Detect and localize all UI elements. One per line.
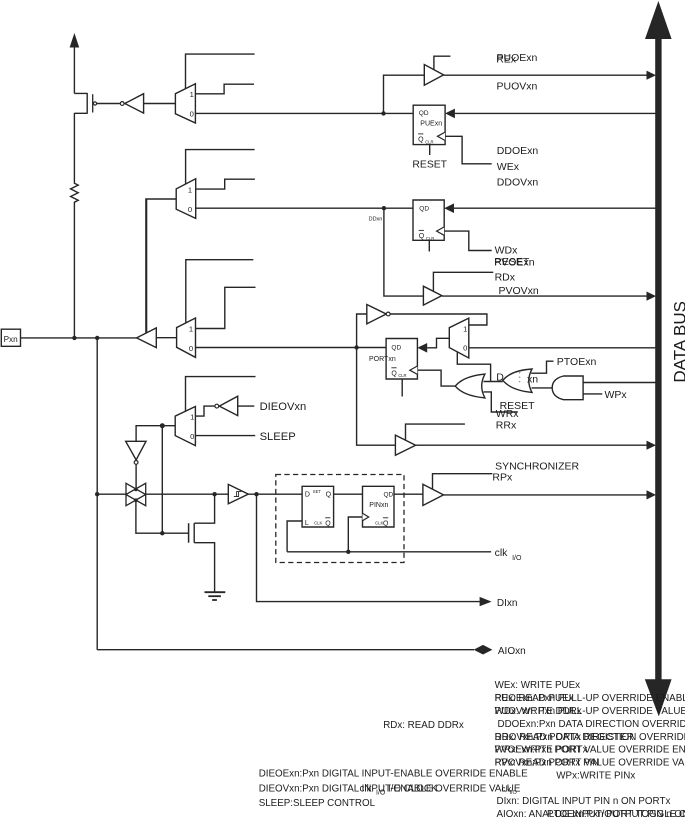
label RESET U13 bbox=[412, 160, 447, 171]
wire RDx enable stub bbox=[433, 272, 493, 291]
arrow AIOxn diamond bbox=[474, 645, 493, 655]
wire U14 clock WDx bbox=[444, 231, 492, 250]
legend RDx left bbox=[383, 720, 464, 731]
flip-flop U13 PUExn box bbox=[413, 105, 445, 144]
arrow RPx bus bbox=[647, 490, 657, 499]
label PUOVxn bbox=[497, 80, 538, 92]
mux M4 input-enable override bbox=[175, 407, 195, 446]
wire mux M2 input-0 from DDxn Q bbox=[196, 207, 413, 209]
legend DIxn bbox=[497, 796, 671, 807]
svg-text:PVOExn:Pxn PORT VALUE OVERRIDE: PVOExn:Pxn PORT VALUE OVERRIDE ENABLE bbox=[495, 745, 685, 756]
svg-text:: I/O CLOCK: : I/O CLOCK bbox=[383, 783, 438, 794]
svg-text:RDx: READ DDRx: RDx: READ DDRx bbox=[383, 720, 464, 731]
node PORT Q junction bbox=[354, 345, 358, 349]
wire O1 top input / O2 output bbox=[484, 381, 503, 383]
wire pin to T1 bbox=[97, 493, 126, 495]
svg-text:SLEEP: SLEEP bbox=[260, 431, 296, 443]
wire RDx buffer input bbox=[384, 208, 424, 296]
svg-text:DIxn: DIxn bbox=[497, 598, 518, 609]
svg-text:RPx: RPx bbox=[492, 472, 513, 484]
mux M1 pull-up override bbox=[175, 84, 195, 123]
arrow DIxn bbox=[480, 597, 492, 606]
label WEx bbox=[497, 161, 520, 173]
svg-text:CLR: CLR bbox=[398, 373, 406, 378]
synchronizer dashed box bbox=[276, 475, 404, 563]
inverter U1 (pull-up enable, bubble left) bbox=[120, 94, 143, 113]
buffer U12 REx read bbox=[424, 65, 443, 86]
transmission gate T1 (analog switch) bbox=[126, 483, 146, 505]
svg-text:0: 0 bbox=[463, 344, 467, 353]
data bus arrow down bbox=[645, 679, 672, 716]
svg-text:DDOExn: DDOExn bbox=[497, 145, 539, 157]
svg-text:1: 1 bbox=[189, 325, 193, 334]
arrow REx bus bbox=[647, 71, 657, 80]
ground GND bbox=[205, 592, 226, 600]
svg-text:xn: xn bbox=[527, 374, 538, 386]
wire T1 bottom control to gate line bbox=[136, 500, 189, 533]
wire RPx to bus bbox=[444, 494, 649, 496]
wire mux M5 output to U11 D bbox=[427, 338, 449, 348]
latch U6 box bbox=[302, 486, 334, 527]
inverter U10 toggle (bubble right) bbox=[367, 305, 390, 324]
svg-text:DIEOExn:Pxn DIGITAL INPUT-ENAB: DIEOExn:Pxn DIGITAL INPUT-ENABLE OVERRID… bbox=[259, 769, 528, 780]
wire mux M1 input-1 stub bbox=[195, 84, 254, 94]
svg-text:SET: SET bbox=[313, 489, 322, 494]
svg-text:QD: QD bbox=[419, 110, 429, 117]
label PTOExn bbox=[557, 356, 597, 368]
svg-text:Pxn: Pxn bbox=[4, 335, 19, 344]
wire mux M3 select stub bbox=[186, 260, 254, 323]
flip-flop U11 labels bbox=[369, 345, 407, 379]
node DIxn branch junction bbox=[254, 492, 258, 496]
svg-text:0: 0 bbox=[190, 432, 194, 441]
svg-text:WPx:WRITE PINx: WPx:WRITE PINx bbox=[556, 770, 635, 781]
label SLEEP bbox=[260, 431, 296, 443]
mux M1 labels 1/0 bbox=[190, 90, 194, 119]
flip-flop U11 PORTxn box bbox=[386, 339, 417, 380]
label AIOxn bbox=[498, 646, 526, 657]
wire PVOE inverter input bbox=[357, 314, 367, 348]
wire pin net horizontal bbox=[21, 337, 137, 339]
label SYNCHRONIZER bbox=[495, 460, 579, 472]
svg-text:1: 1 bbox=[463, 325, 467, 334]
label PVOVxn bbox=[499, 285, 539, 297]
inverter U4 sleep (pointing down) bbox=[126, 441, 146, 464]
wire DIxn line bbox=[257, 494, 481, 601]
wire REx enable stub bbox=[434, 56, 451, 70]
wire O2 bottom input from AND A1 bbox=[532, 387, 553, 389]
flip-flop U14 labels bbox=[419, 205, 435, 241]
svg-text:SYNCHRONIZER: SYNCHRONIZER bbox=[495, 460, 579, 472]
svg-text:WEx: WEx bbox=[497, 161, 520, 173]
flip-flop U13 labels bbox=[418, 110, 442, 144]
wire mux M3 input-0 from PORTxn Q bbox=[196, 347, 387, 349]
svg-text:PUExn: PUExn bbox=[420, 121, 442, 128]
svg-text:PTOExn: PTOExn bbox=[557, 356, 597, 368]
wire inverter U3 output stub bbox=[238, 405, 255, 407]
pin pad Pxn box bbox=[1, 329, 20, 346]
node pull-up junction bbox=[72, 336, 76, 340]
flip-flop U14 reset stub bbox=[428, 240, 430, 251]
legend WRx/PVOExn bbox=[495, 745, 685, 756]
legend REx/PUOExn bbox=[495, 693, 685, 704]
arrow U13 D input bbox=[445, 109, 455, 119]
buffer U9 RRx read port bbox=[395, 435, 415, 455]
label DDxn tiny bbox=[369, 217, 383, 223]
mux M5 port toggle bbox=[449, 318, 469, 358]
arrow U14 D input bbox=[444, 203, 454, 213]
wire AIOxn line bbox=[97, 649, 474, 651]
node clk junction bbox=[346, 550, 350, 554]
wire mux M4 select stub bbox=[186, 377, 256, 412]
wire A1 WPx stub bbox=[583, 393, 602, 395]
svg-text:CLR: CLR bbox=[426, 236, 434, 241]
wire mux M2 input-1 stub bbox=[196, 179, 255, 189]
wire RRx to bus bbox=[416, 444, 648, 446]
mux M4 labels 1/0 bbox=[190, 413, 194, 441]
wire pin vertical down bbox=[96, 338, 98, 650]
buffer pin output driver bbox=[137, 328, 157, 348]
wire U14 D from bus bbox=[454, 207, 656, 209]
svg-text:PINxn: PINxn bbox=[369, 502, 388, 509]
arrow RDx bus bbox=[647, 292, 657, 301]
flip-flop U7 labels bbox=[369, 492, 393, 528]
flip-flop U11 clock wedge bbox=[410, 366, 418, 374]
svg-text:Q: Q bbox=[391, 370, 397, 377]
svg-text:WPx: WPx bbox=[605, 389, 628, 401]
svg-text:0: 0 bbox=[189, 344, 193, 353]
node DD Q junction bbox=[382, 206, 386, 210]
wire REx to bus bbox=[444, 74, 648, 76]
label RPx bbox=[492, 472, 513, 484]
data bus arrow up bbox=[645, 1, 672, 39]
transistor Q2 clamp NMOS bbox=[189, 494, 215, 592]
node Q2 drain junction bbox=[212, 492, 216, 496]
legend clk bbox=[360, 783, 518, 796]
legend SLEEP bbox=[259, 798, 376, 809]
wire U13 clock WEx bbox=[445, 136, 492, 164]
wire U7 Q output bbox=[394, 493, 423, 495]
svg-text:L: L bbox=[305, 520, 309, 527]
svg-text:DATA BUS: DATA BUS bbox=[670, 301, 685, 383]
latch U6 labels bbox=[305, 489, 332, 528]
label D(gate overlap) bbox=[496, 372, 538, 386]
node T1 top control bbox=[134, 488, 138, 492]
svg-text:DDxn: DDxn bbox=[369, 217, 383, 223]
svg-text:PVOVxn:Pxn PORT VALUE OVERRIDE: PVOVxn:Pxn PORT VALUE OVERRIDE VALUE bbox=[495, 758, 685, 769]
label DDOExn bbox=[497, 145, 539, 157]
buffer U15 RDx read bbox=[423, 286, 441, 305]
data bus bar bbox=[655, 37, 661, 681]
svg-text:PVOExn: PVOExn bbox=[494, 256, 534, 268]
svg-text:RDx: RDx bbox=[495, 272, 516, 284]
node pin tap junction bbox=[95, 336, 99, 340]
svg-text:Q: Q bbox=[418, 137, 424, 144]
label clk bbox=[495, 547, 522, 562]
mux M5 labels 1/0 bbox=[463, 325, 467, 353]
svg-text:WEx: WRITE PUEx: WEx: WRITE PUEx bbox=[495, 680, 581, 691]
legend WDx/PUOVxn bbox=[495, 706, 685, 717]
wire RRx input bbox=[357, 348, 396, 446]
mux M3 port-value override bbox=[177, 318, 196, 357]
wire REx buffer input bbox=[384, 75, 425, 113]
svg-text:DIEOVxn: DIEOVxn bbox=[260, 401, 307, 413]
svg-text:Q: Q bbox=[325, 521, 331, 528]
svg-text:DDOVxn:Pxn DATA DIRECTION OVER: DDOVxn:Pxn DATA DIRECTION OVERRIDE VALUE bbox=[495, 732, 685, 743]
wire mux M1 input-0 from PUExn Q bbox=[195, 112, 413, 114]
wire latch U6 to PINxn bbox=[334, 493, 363, 495]
mux M2 labels 1/0 bbox=[188, 185, 192, 214]
inverter U3 DIEOV (bubble left) bbox=[215, 396, 238, 415]
svg-text:DDOExn:Pxn DATA DIRECTION OVER: DDOExn:Pxn DATA DIRECTION OVERRIDE ENABL… bbox=[498, 719, 685, 730]
flip-flop U14 clock wedge bbox=[437, 227, 445, 235]
svg-text:PORTxn: PORTxn bbox=[369, 356, 396, 363]
svg-text:Q: Q bbox=[326, 492, 332, 499]
svg-text:CLK: CLK bbox=[314, 520, 322, 525]
flip-flop U7 clock wedge bbox=[363, 513, 369, 521]
wire mux M5 input-0 from bus bbox=[469, 347, 656, 349]
label WDx bbox=[495, 244, 518, 256]
svg-text:WRx: WRx bbox=[496, 408, 519, 420]
wire inverter U1 input from mux M1 output bbox=[144, 103, 176, 105]
svg-text:PTOExn:Pxn PORT TOGGLE OVERRID: PTOExn:Pxn PORT TOGGLE OVERRIDE ENABLE bbox=[547, 809, 685, 820]
svg-text:QD: QD bbox=[419, 205, 429, 212]
wire mux M5 select bbox=[457, 352, 490, 381]
svg-text:PUOVxn: Pxn PULL-UP OVERRIDE V: PUOVxn: Pxn PULL-UP OVERRIDE VALUE bbox=[495, 706, 685, 717]
svg-text:REx: REx bbox=[496, 54, 517, 66]
wire mux M1 select stub bbox=[186, 54, 255, 89]
wire driver enable vertical bbox=[146, 199, 148, 333]
wire mux M2 output to driver enable bbox=[146, 199, 176, 333]
resistor R1 pull-up bbox=[71, 181, 79, 338]
wire U10 output to mux M5 in1 bbox=[390, 314, 487, 325]
label RDx bbox=[495, 272, 516, 284]
or gate O1 (points left) bbox=[455, 374, 485, 398]
svg-text:clk: clk bbox=[360, 783, 372, 794]
or gate O2 (points left) bbox=[503, 369, 532, 392]
svg-text:1: 1 bbox=[190, 413, 194, 422]
svg-text:D: D bbox=[496, 372, 504, 384]
svg-text:clk: clk bbox=[495, 547, 509, 559]
svg-text:AIOxn: AIOxn bbox=[498, 646, 526, 657]
wire PMOS gate to inverter bbox=[97, 103, 121, 105]
svg-text:DIxn: DIGITAL INPUT PIN n ON P: DIxn: DIGITAL INPUT PIN n ON PORTx bbox=[497, 796, 671, 807]
legend RRx/DDOVxn bbox=[495, 732, 685, 743]
wire PTOExn stub bbox=[531, 361, 553, 373]
label RESET overlap PVOExn bbox=[494, 256, 534, 268]
flip-flop U13 reset stub bbox=[429, 145, 431, 155]
label DDOVxn bbox=[497, 176, 539, 188]
legend AIOxn/PTOExn bbox=[497, 809, 685, 820]
label RRx bbox=[496, 420, 517, 432]
svg-text:SLEEP:SLEEP CONTROL: SLEEP:SLEEP CONTROL bbox=[259, 798, 376, 809]
wire sleep branch vertical bbox=[161, 426, 163, 534]
svg-text:WDx: WDx bbox=[495, 244, 518, 256]
svg-text:1: 1 bbox=[190, 90, 194, 99]
flip-flop U13 clock wedge bbox=[438, 132, 446, 140]
power rail VCC arrow bbox=[70, 33, 80, 93]
legend WEx bbox=[495, 680, 581, 691]
arrow RRx bus bbox=[647, 441, 657, 450]
node PUE Q junction bbox=[381, 111, 385, 115]
svg-text:I/O: I/O bbox=[510, 790, 518, 796]
svg-text:Q: Q bbox=[419, 233, 425, 240]
svg-text:RESET: RESET bbox=[412, 160, 447, 171]
label DIxn bbox=[497, 598, 518, 609]
svg-text:QD: QD bbox=[391, 345, 401, 352]
wire mux M2 select stub bbox=[186, 150, 255, 184]
node sleep branch junction bbox=[160, 423, 165, 428]
label PUOExn overlap REx bbox=[496, 52, 537, 65]
svg-text:I/O: I/O bbox=[512, 555, 522, 562]
buffer U8 RPx read pin bbox=[423, 484, 444, 505]
wire A1 top input from bus bbox=[583, 382, 656, 384]
svg-text:1: 1 bbox=[188, 185, 192, 194]
mux M3 labels 1/0 bbox=[189, 325, 193, 353]
svg-text:DDOVxn: DDOVxn bbox=[497, 176, 539, 188]
wire U11 clock to OR O1 bbox=[417, 370, 455, 386]
flip-flop U11 reset stub bbox=[401, 379, 403, 397]
svg-text:PVOVxn: PVOVxn bbox=[499, 285, 539, 297]
wire RRx enable stub bbox=[406, 424, 465, 440]
legend WPx bbox=[556, 770, 635, 781]
wire clk I/O line bbox=[287, 551, 491, 553]
label DATA BUS bbox=[670, 301, 685, 383]
transistor Q1 pull-up PMOS bbox=[74, 93, 96, 181]
legend RPx/PVOVxn bbox=[495, 758, 685, 769]
svg-text:0: 0 bbox=[190, 110, 194, 119]
pin pad label bbox=[4, 335, 19, 344]
legend DIEOVxn bbox=[259, 783, 521, 794]
node T1 bottom control bbox=[134, 498, 138, 502]
wire latch U6 L input bbox=[287, 521, 302, 552]
svg-text:PUOExn: Pxn PULL-UP OVERRIDE E: PUOExn: Pxn PULL-UP OVERRIDE ENABLE bbox=[495, 693, 685, 704]
legend DIEOExn bbox=[259, 769, 528, 780]
label DIEOVxn bbox=[260, 401, 307, 413]
legend DDOExn bbox=[498, 719, 685, 730]
wire mux M3 input-1 stub bbox=[196, 287, 256, 328]
node pin/analog junction bbox=[95, 492, 99, 496]
wire T1 to schmitt bbox=[146, 493, 229, 495]
node gate line junction bbox=[160, 531, 164, 535]
wire mux M3 output to pin driver bbox=[156, 337, 176, 339]
wire U13 D from bus bbox=[455, 112, 656, 114]
wire mux M4 output bbox=[136, 426, 175, 442]
svg-text:CLR: CLR bbox=[425, 139, 433, 144]
label WRx bbox=[496, 408, 519, 420]
svg-text:RRx: RRx bbox=[496, 420, 517, 432]
svg-text:0: 0 bbox=[188, 205, 192, 214]
svg-text:D: D bbox=[305, 492, 310, 499]
wire RPx enable stub bbox=[433, 474, 493, 490]
wire schmitt output bbox=[248, 493, 302, 495]
label WPx bbox=[605, 389, 628, 401]
svg-text:Q: Q bbox=[383, 521, 389, 528]
mux M2 data-direction override bbox=[176, 179, 196, 219]
buffer U5 schmitt trigger bbox=[228, 484, 248, 503]
arrow U11 D input bbox=[417, 343, 427, 353]
wire U7 clock bbox=[348, 517, 362, 552]
label RESET under O1 bbox=[500, 400, 536, 412]
wire mux M4 input-0 SLEEP stub bbox=[195, 435, 255, 437]
flip-flop U14 DDxn box bbox=[413, 200, 444, 240]
svg-text:PUOVxn: PUOVxn bbox=[497, 80, 538, 92]
svg-text:QD: QD bbox=[384, 492, 394, 499]
wire RDx to bus bbox=[442, 295, 648, 297]
wire O1 bottom input WRx bbox=[484, 392, 518, 412]
wire mux M4 input-1 to inverter U3 bbox=[195, 406, 214, 416]
and gate A1 (points left) bbox=[552, 376, 583, 400]
flip-flop U7 PINxn box bbox=[363, 486, 395, 527]
wire U4 output to gate T1 bbox=[135, 464, 137, 489]
